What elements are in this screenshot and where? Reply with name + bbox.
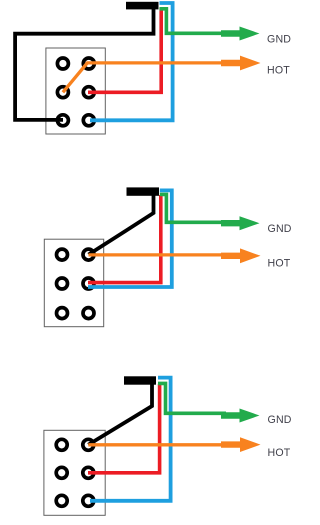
blue wire (jacket to terminal S1-6) [90,3,173,120]
terminal S2-4 [83,278,94,289]
svg-text:GND: GND [267,33,291,45]
green wire (jacket to GND) [160,9,227,34]
red wire (jacket to terminal S2-4) [88,195,161,283]
red wire (jacket to terminal S3-4) [88,384,160,473]
orange wire (terminal S2-2 to HOT) [89,253,227,256]
terminal S2-1 [57,249,68,260]
terminal S3-2 [83,439,94,450]
terminal S2-3 [57,278,68,289]
terminal S1-2 [83,58,94,69]
terminal S1-4 [83,87,94,98]
GND arrow 1 [221,27,260,41]
terminal S2-6 [83,308,94,319]
blue wire (jacket to terminal S2-4) [88,190,172,287]
switch body S1 [46,48,105,134]
black wire (jacket to terminal S3-2) [88,383,152,445]
terminal S2-5 [57,308,68,319]
terminal S3-4 [83,467,94,478]
svg-text:GND: GND [268,414,292,426]
orange wire (terminal S3-2 to HOT) [88,443,226,446]
cable jacket J3 [124,376,156,384]
svg-text:GND: GND [268,223,292,235]
cable jacket J1 [126,2,159,10]
terminal S3-5 [56,495,67,506]
orange wire (terminal S1-3 to terminal S1-2 to HOT) [63,63,226,92]
black wire (jacket to terminal S2-2) [89,194,154,255]
terminal S1-1 [57,58,68,69]
switch body S3 [44,430,105,515]
svg-text:HOT: HOT [268,258,291,270]
terminal S3-3 [56,467,67,478]
cable jacket J2 [127,187,160,195]
green wire (jacket to GND) [158,383,226,413]
terminal S2-2 [83,249,94,260]
terminal S1-3 [57,87,68,98]
GND arrow 3 [221,409,260,423]
HOT arrow 1 [221,56,261,71]
HOT arrow 2 [221,248,261,263]
red wire (jacket to terminal S1-4) [88,8,161,92]
black wire (jacket to terminal S1-5) [15,8,153,120]
HOT arrow 3 [221,437,261,452]
svg-text:HOT: HOT [268,447,291,459]
terminal S1-6 [83,115,94,126]
svg-text:HOT: HOT [267,65,290,77]
GND arrow 2 [221,216,260,230]
terminal S1-5 [57,115,68,126]
switch body S2 [44,239,103,327]
terminal S3-1 [56,439,67,450]
blue wire (jacket to terminal S3-6) [90,378,171,501]
terminal S3-6 [83,495,94,506]
green wire (jacket to GND) [160,194,226,222]
